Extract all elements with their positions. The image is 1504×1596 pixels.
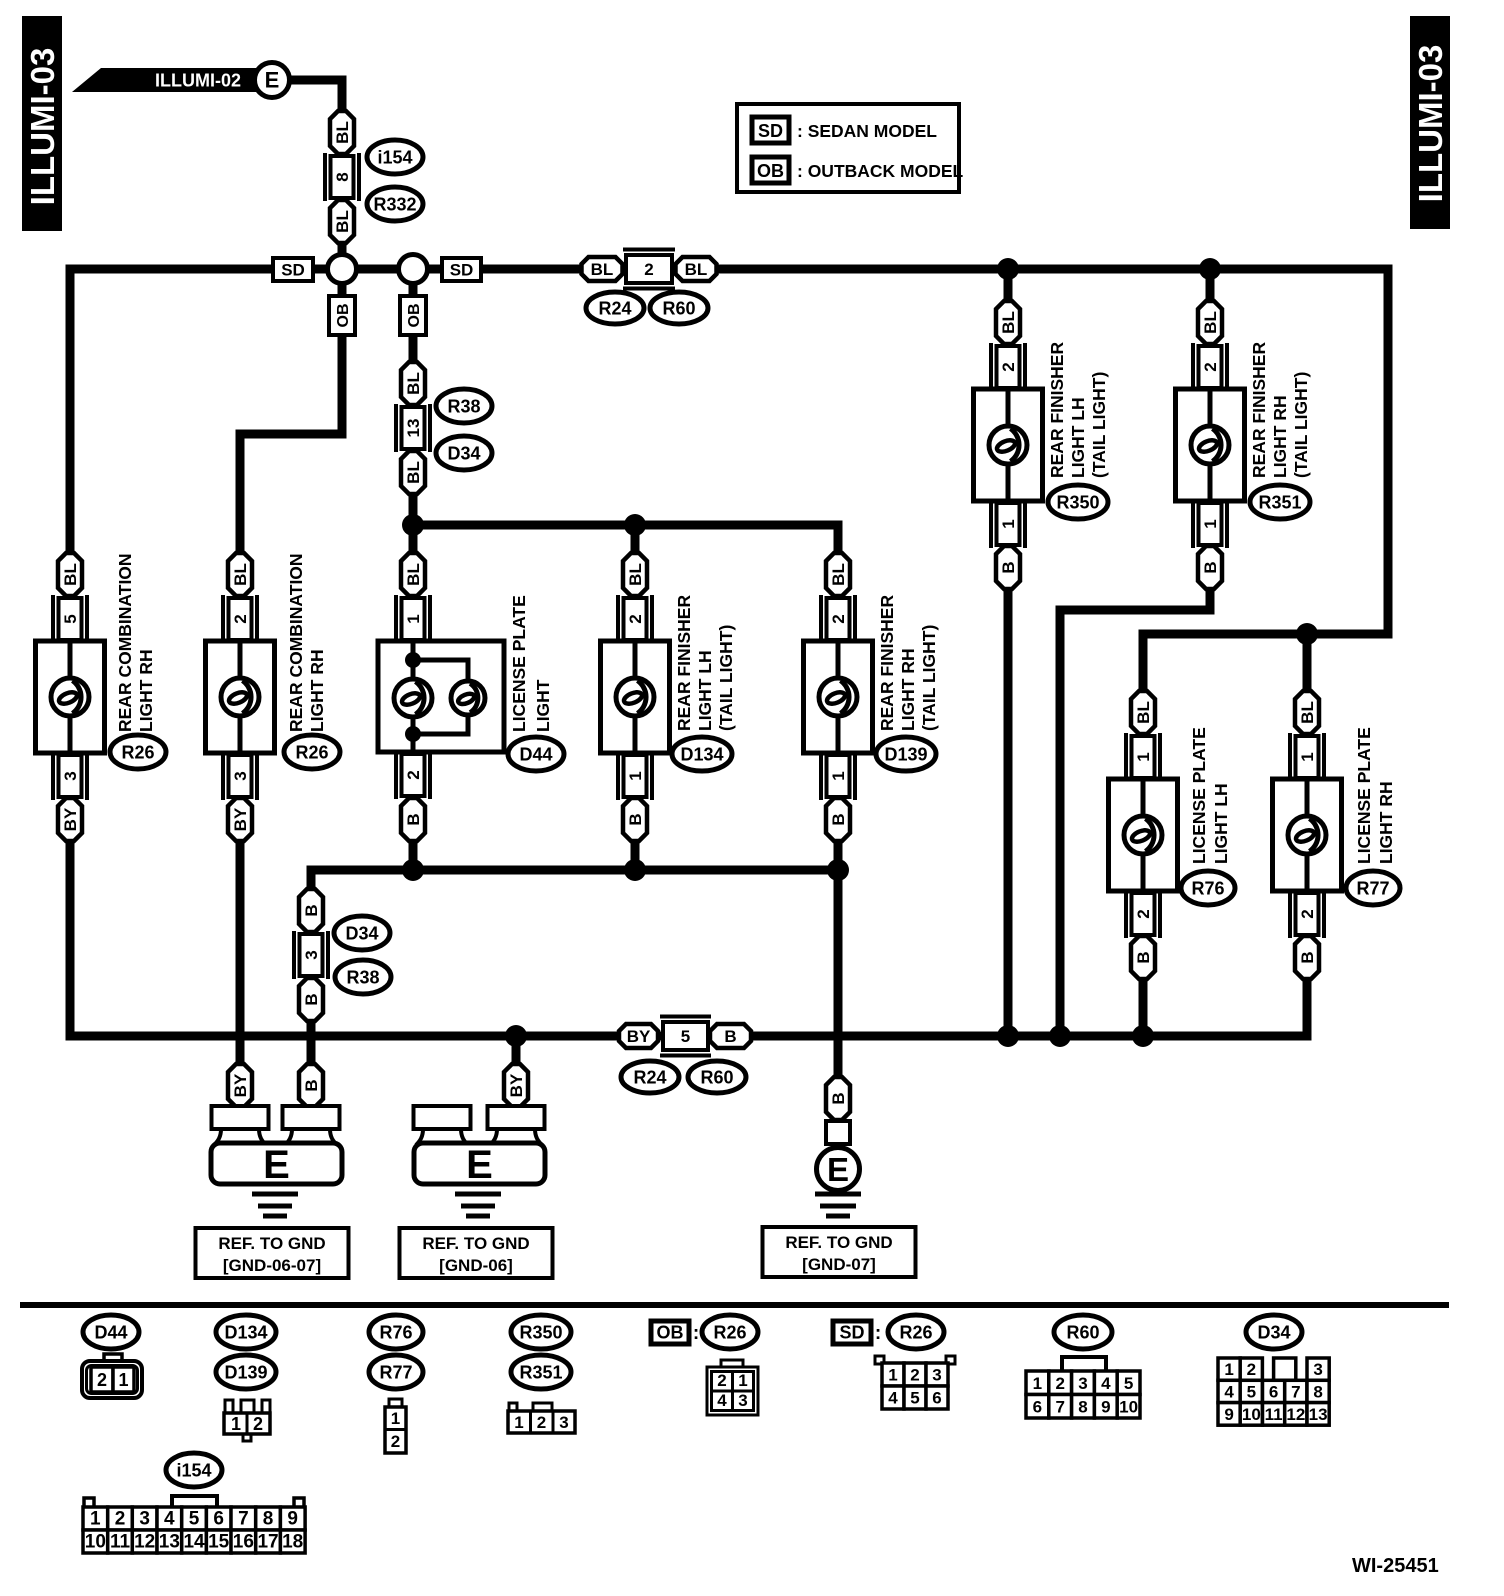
svg-text:E: E: [466, 1143, 493, 1187]
tag SD (pinout): [833, 1321, 871, 1344]
svg-text:SD: SD: [281, 261, 305, 280]
svg-text:17: 17: [257, 1532, 278, 1553]
svg-text:1: 1: [626, 771, 645, 780]
svg-text:2: 2: [537, 1413, 546, 1432]
svg-text:6: 6: [1269, 1382, 1278, 1401]
wire label BY (to GND-06-07 left): [228, 1064, 252, 1107]
oval R77: [1346, 871, 1400, 905]
junction top bus / R350: [997, 258, 1019, 280]
pinout oval D139: [216, 1355, 276, 1389]
node SD/OB junction right: [399, 255, 428, 284]
oval R24 (top): [586, 292, 644, 324]
svg-text:9: 9: [287, 1509, 298, 1530]
svg-text:LIGHT RH: LIGHT RH: [898, 648, 918, 731]
svg-text:1: 1: [118, 1370, 128, 1390]
junction B bus / D44: [402, 859, 424, 881]
oval R26 (mid lamp): [284, 735, 340, 769]
svg-text:LIGHT RH: LIGHT RH: [1376, 781, 1396, 864]
svg-text:5: 5: [61, 614, 80, 623]
left banner ILLUMI-03: [22, 16, 62, 231]
svg-text:1: 1: [1298, 752, 1317, 761]
svg-text:OB: OB: [757, 161, 784, 181]
svg-text:4: 4: [717, 1391, 727, 1410]
svg-text:B: B: [829, 813, 848, 825]
pinout oval D44: [83, 1315, 139, 1349]
pinout connector D34: [1218, 1358, 1329, 1425]
svg-text:R26: R26: [121, 743, 154, 763]
oval R38 (mid): [335, 960, 391, 994]
svg-text:15: 15: [208, 1532, 230, 1553]
pinout connector R350/R351: [508, 1403, 575, 1433]
svg-text:REAR FINISHER: REAR FINISHER: [877, 595, 897, 731]
svg-text:R26: R26: [899, 1323, 932, 1343]
ground GND-06: [414, 1106, 546, 1216]
svg-text:B: B: [1298, 951, 1317, 963]
svg-text:LIGHT LH: LIGHT LH: [1068, 397, 1088, 478]
svg-text:3: 3: [1078, 1374, 1087, 1393]
ground GND-06-07: [211, 1106, 342, 1216]
wire rear combination RH (mid) BY to ground GND-06-07: [236, 841, 245, 1064]
junction ground bus / R351: [1049, 1025, 1071, 1047]
svg-text:(TAIL LIGHT): (TAIL LIGHT): [716, 625, 736, 731]
svg-text:LICENSE PLATE: LICENSE PLATE: [509, 595, 529, 732]
wire D134 pin 1 to B bus: [631, 841, 640, 870]
wire ground bus (bottom): [70, 841, 1307, 1036]
oval D34 (upper): [436, 436, 492, 470]
svg-text:1: 1: [231, 1414, 241, 1434]
pinout oval R60: [1054, 1315, 1112, 1349]
svg-text:R26: R26: [713, 1323, 746, 1343]
svg-text:R351: R351: [519, 1363, 562, 1383]
svg-text:B: B: [999, 561, 1018, 573]
svg-text:B: B: [1201, 561, 1220, 573]
svg-text:12: 12: [134, 1532, 155, 1553]
oval R350: [1048, 485, 1108, 519]
pinout connector R76/R77: [385, 1399, 406, 1453]
svg-text:3: 3: [231, 771, 250, 780]
wire label B (below pin 3): [299, 978, 323, 1021]
oval D34 (mid): [334, 916, 390, 950]
pinout oval i154: [166, 1453, 222, 1487]
svg-text:4: 4: [1224, 1382, 1234, 1401]
svg-text:OB: OB: [335, 304, 352, 328]
svg-text:D44: D44: [519, 745, 552, 765]
lamp R351 rear finisher light RH (tail light): [1176, 301, 1312, 589]
junction B bus / D139 ground wire: [827, 859, 849, 881]
inline connector pin 2 (R24/R60): [623, 250, 675, 289]
wire label BL (right of pin 2): [676, 257, 717, 281]
wire R350 B to ground bus: [1004, 589, 1013, 1036]
oval R332: [367, 187, 423, 221]
svg-text:2: 2: [1247, 1360, 1256, 1379]
junction feed node at D34 connector: [402, 514, 424, 536]
oval R60 (bottom): [688, 1061, 746, 1093]
oval D139: [876, 737, 936, 771]
svg-text:BL: BL: [626, 563, 645, 586]
oval D134: [672, 737, 732, 771]
oval R351: [1250, 485, 1310, 519]
svg-text:B: B: [404, 813, 423, 825]
svg-text:B: B: [302, 1079, 321, 1091]
oval D44: [508, 737, 564, 771]
drawing number WI-25451: [1352, 1555, 1439, 1577]
svg-text:2: 2: [253, 1414, 263, 1434]
svg-text:BL: BL: [333, 121, 352, 144]
svg-text:1: 1: [888, 1366, 897, 1385]
svg-text:BY: BY: [231, 807, 250, 831]
svg-text:11: 11: [110, 1532, 131, 1553]
wire OB branch through D34/R38 connector: [409, 269, 418, 362]
svg-text:2: 2: [644, 260, 653, 279]
svg-text:LIGHT RH: LIGHT RH: [307, 649, 327, 732]
wire label BY (left of pin 5): [619, 1024, 658, 1048]
svg-text:2: 2: [391, 1432, 400, 1451]
pinout connector R26 sedan: [875, 1356, 955, 1409]
svg-text:2: 2: [1134, 909, 1153, 918]
svg-text:14: 14: [183, 1532, 205, 1553]
svg-text:BL: BL: [999, 311, 1018, 334]
svg-text:D139: D139: [884, 745, 927, 765]
svg-text:1: 1: [1033, 1374, 1042, 1393]
wire feed to license plate light RH R77: [1303, 634, 1312, 691]
tag SD (right): [442, 258, 481, 281]
svg-text:1: 1: [738, 1371, 747, 1390]
wire R351 B to ground bus: [1060, 589, 1210, 1036]
svg-text:6: 6: [213, 1509, 224, 1530]
svg-text:BL: BL: [829, 563, 848, 586]
inline connector pin 5 (R24/R60): [660, 1017, 711, 1056]
svg-text:2: 2: [1055, 1374, 1064, 1393]
svg-text:13: 13: [404, 419, 423, 438]
pinout connector R60: [1026, 1357, 1140, 1418]
ground GND-07: [815, 1121, 861, 1216]
svg-text:D34: D34: [345, 924, 378, 944]
svg-text:2: 2: [717, 1371, 726, 1390]
junction right feed / R77: [1296, 623, 1318, 645]
pinout connector D44: [82, 1354, 142, 1398]
wire label BL (left of pin 2): [582, 257, 623, 281]
svg-text:(TAIL LIGHT): (TAIL LIGHT): [1089, 372, 1109, 478]
svg-text:13: 13: [1309, 1405, 1328, 1424]
pinout oval R351: [511, 1355, 571, 1389]
inline connector pin 8 (i154/R332): [325, 153, 359, 201]
svg-text:9: 9: [1101, 1397, 1110, 1416]
svg-text:D44: D44: [94, 1323, 127, 1343]
svg-text:1: 1: [514, 1413, 523, 1432]
svg-text:R60: R60: [1066, 1323, 1099, 1343]
svg-text:2: 2: [829, 614, 848, 623]
svg-text:R351: R351: [1258, 493, 1301, 513]
pinout oval D134: [216, 1315, 276, 1349]
svg-text:BL: BL: [231, 563, 250, 586]
svg-text:3: 3: [1313, 1360, 1322, 1379]
inline connector pin 3 (D34/R38): [294, 931, 328, 979]
svg-text:BL: BL: [1201, 311, 1220, 334]
svg-text:5: 5: [1124, 1374, 1133, 1393]
svg-text:16: 16: [233, 1532, 254, 1553]
svg-text:8: 8: [333, 172, 352, 181]
legend box: [737, 104, 964, 192]
pinout oval R77: [369, 1355, 423, 1389]
svg-text:E: E: [263, 1143, 290, 1187]
svg-text:B: B: [724, 1027, 736, 1046]
svg-text:OB: OB: [406, 304, 423, 328]
pinout oval D34: [1246, 1315, 1302, 1349]
svg-text:BL: BL: [1298, 701, 1317, 724]
svg-text:1: 1: [1134, 752, 1153, 761]
svg-text:REF. TO GND: REF. TO GND: [218, 1234, 325, 1253]
svg-text:1: 1: [1224, 1360, 1233, 1379]
svg-text:3: 3: [932, 1366, 941, 1385]
svg-text:REAR FINISHER: REAR FINISHER: [1047, 342, 1067, 478]
svg-text:R24: R24: [598, 299, 631, 319]
lamp R350 rear finisher light LH (tail light): [974, 301, 1110, 589]
svg-text:R60: R60: [700, 1068, 733, 1088]
svg-text:5: 5: [910, 1389, 919, 1408]
svg-text:BY: BY: [627, 1027, 651, 1046]
wire label BL (above i154 pin 8): [330, 111, 354, 154]
svg-text:BY: BY: [231, 1073, 250, 1097]
svg-text:BL: BL: [404, 461, 423, 484]
node SD/OB junction left: [328, 255, 357, 284]
svg-text:2: 2: [1201, 362, 1220, 371]
tag OB (right): [400, 296, 426, 335]
svg-text:7: 7: [1055, 1397, 1064, 1416]
svg-text:R76: R76: [1191, 879, 1224, 899]
wire R76 B to ground bus: [1139, 979, 1148, 1036]
svg-text:D139: D139: [224, 1363, 267, 1383]
svg-text:D134: D134: [680, 745, 723, 765]
svg-text:BL: BL: [404, 563, 423, 586]
svg-text:: OUTBACK MODEL: : OUTBACK MODEL: [797, 161, 964, 181]
lamp D134 rear finisher light LH (tail light): [601, 553, 737, 841]
wire label B (right of pin 5): [710, 1024, 751, 1048]
svg-text:2: 2: [97, 1370, 107, 1390]
svg-text:[GND-07]: [GND-07]: [802, 1255, 876, 1274]
wire label BL (above pin 13): [401, 362, 425, 405]
svg-text:R38: R38: [447, 397, 480, 417]
oval R60 (top): [650, 292, 708, 324]
tag SD (left): [273, 258, 313, 281]
svg-text:B: B: [626, 813, 645, 825]
svg-text:12: 12: [1286, 1405, 1305, 1424]
svg-text:LIGHT LH: LIGHT LH: [1211, 783, 1231, 864]
lamp R26 rear combination light RH (left): [36, 553, 157, 841]
svg-text:3: 3: [559, 1413, 568, 1432]
svg-text:REAR FINISHER: REAR FINISHER: [674, 595, 694, 731]
svg-text:BY: BY: [61, 807, 80, 831]
svg-text:i154: i154: [176, 1461, 211, 1481]
svg-text:SD: SD: [450, 261, 474, 280]
svg-text:B: B: [302, 904, 321, 916]
svg-text:1: 1: [829, 771, 848, 780]
wire ground bus branch to GND-06: [512, 1036, 521, 1064]
svg-text:7: 7: [1291, 1382, 1300, 1401]
pinout oval R26 (OB): [702, 1315, 758, 1349]
svg-text:B: B: [302, 993, 321, 1005]
svg-text:3: 3: [139, 1509, 150, 1530]
svg-text:5: 5: [681, 1027, 690, 1046]
svg-text:11: 11: [1265, 1405, 1283, 1424]
lamp D139 rear finisher light RH (tail light): [804, 553, 940, 841]
svg-text:ILLUMI-03: ILLUMI-03: [24, 48, 61, 206]
wire main illumination bus (top): [70, 269, 1388, 691]
svg-text:i154: i154: [377, 148, 412, 168]
junction ground bus / R350: [997, 1025, 1019, 1047]
svg-text:1: 1: [404, 614, 423, 623]
svg-text:D34: D34: [1257, 1323, 1290, 1343]
lamp D44 license plate light: [378, 553, 553, 841]
svg-text:REAR COMBINATION: REAR COMBINATION: [286, 553, 306, 732]
oval R38 (upper): [436, 389, 492, 423]
svg-text:B: B: [829, 1092, 848, 1104]
svg-text:2: 2: [404, 770, 423, 779]
separator line: [20, 1302, 1449, 1308]
svg-text:R76: R76: [379, 1323, 412, 1343]
svg-text:R77: R77: [379, 1363, 412, 1383]
svg-text:1: 1: [90, 1509, 101, 1530]
svg-text:: SEDAN MODEL: : SEDAN MODEL: [797, 121, 937, 141]
svg-text:R350: R350: [519, 1323, 562, 1343]
svg-text:R350: R350: [1056, 493, 1099, 513]
svg-text:LIGHT LH: LIGHT LH: [695, 650, 715, 731]
oval i154: [367, 140, 423, 174]
svg-text:4: 4: [164, 1509, 175, 1530]
colon (OB:R26): [693, 1323, 699, 1344]
svg-text:9: 9: [1224, 1405, 1233, 1424]
inline connector pin 13 (R38/D34): [396, 404, 430, 452]
svg-text:E: E: [265, 68, 280, 93]
pinout oval R350: [511, 1315, 571, 1349]
svg-text:B: B: [1134, 951, 1153, 963]
svg-text:REF. TO GND: REF. TO GND: [785, 1233, 892, 1252]
oval R24 (bottom): [621, 1061, 679, 1093]
svg-text:D134: D134: [224, 1323, 267, 1343]
wire label BY (to GND-06): [504, 1064, 528, 1107]
svg-text:6: 6: [1033, 1397, 1042, 1416]
svg-text:2: 2: [115, 1509, 126, 1530]
svg-text:10: 10: [1119, 1397, 1138, 1416]
lamp R77 license plate light RH: [1273, 691, 1397, 979]
tag OB (left): [329, 296, 355, 335]
svg-text:1: 1: [999, 519, 1018, 528]
wire label BL (below pin 13): [401, 451, 425, 494]
pinout oval R76: [369, 1315, 423, 1349]
pinout connector D134/D139: [224, 1400, 270, 1441]
svg-text:8: 8: [1313, 1382, 1322, 1401]
svg-text:[GND-06-07]: [GND-06-07]: [223, 1256, 321, 1275]
svg-text:LIGHT RH: LIGHT RH: [1270, 395, 1290, 478]
svg-text:BL: BL: [685, 260, 708, 279]
tag OB (pinout): [651, 1321, 689, 1344]
svg-text:REAR FINISHER: REAR FINISHER: [1249, 342, 1269, 478]
svg-text:REAR COMBINATION: REAR COMBINATION: [115, 553, 135, 732]
svg-text:10: 10: [1242, 1405, 1261, 1424]
wire label BL (below i154 pin 8): [330, 200, 354, 243]
svg-text:(TAIL LIGHT): (TAIL LIGHT): [919, 625, 939, 731]
svg-text:7: 7: [238, 1509, 249, 1530]
svg-text:R60: R60: [662, 299, 695, 319]
arrow banner ILLUMI-02: [72, 68, 259, 92]
wire label B (above pin 3): [299, 889, 323, 932]
svg-text:LIGHT: LIGHT: [533, 679, 553, 732]
svg-text:8: 8: [1078, 1397, 1087, 1416]
svg-text:18: 18: [282, 1532, 303, 1553]
svg-text:[GND-06]: [GND-06]: [439, 1256, 513, 1275]
junction B bus / D134: [624, 859, 646, 881]
wire ILLUMI-02 feed from connector E: [289, 80, 342, 111]
svg-text:WI-25451: WI-25451: [1352, 1555, 1439, 1577]
svg-text:3: 3: [738, 1391, 747, 1410]
svg-text:13: 13: [159, 1532, 180, 1553]
svg-text:2: 2: [231, 614, 250, 623]
svg-text:BY: BY: [507, 1073, 526, 1097]
right banner ILLUMI-03: [1410, 16, 1450, 229]
pinout oval R26 (SD): [888, 1315, 944, 1349]
wire label B (to GND-06-07 right): [299, 1064, 323, 1107]
junction ground bus / GND-06 branch: [505, 1025, 527, 1047]
svg-text::: :: [875, 1323, 881, 1344]
svg-text:BL: BL: [61, 563, 80, 586]
label REF. TO GND [GND-06-07]: [196, 1228, 349, 1278]
wire pin3 stack to ground GND-06-07: [307, 1021, 316, 1064]
oval R26 (left lamp): [110, 735, 166, 769]
connector E (to ILLUMI-02): [255, 63, 290, 98]
svg-text:5: 5: [189, 1509, 200, 1530]
svg-text:BL: BL: [1134, 701, 1153, 724]
svg-text:1: 1: [391, 1409, 400, 1428]
svg-text:ILLUMI-02: ILLUMI-02: [155, 71, 241, 91]
junction top bus / R351: [1199, 258, 1221, 280]
pinout connector i154: [83, 1496, 305, 1553]
svg-text:3: 3: [61, 771, 80, 780]
pinout connector R26 outback: [707, 1360, 758, 1415]
svg-text:E: E: [827, 1151, 849, 1188]
label REF. TO GND [GND-07]: [763, 1227, 916, 1277]
wire BL stack to feed node: [409, 494, 418, 525]
svg-text:2: 2: [910, 1366, 919, 1385]
svg-text:R332: R332: [373, 195, 416, 215]
svg-text:10: 10: [85, 1532, 106, 1553]
wire D139 pin 1 to ground GND-07: [834, 841, 843, 1077]
wire bus drop to R351 tail light: [1206, 269, 1215, 301]
svg-text:LICENSE PLATE: LICENSE PLATE: [1354, 727, 1374, 864]
svg-text:R77: R77: [1356, 879, 1389, 899]
wire label B (to GND-07): [826, 1077, 850, 1120]
svg-text:REF. TO GND: REF. TO GND: [422, 1234, 529, 1253]
svg-text:BL: BL: [591, 260, 614, 279]
svg-text:R38: R38: [346, 968, 379, 988]
wire D44 pin 2 to B bus: [409, 841, 418, 870]
lamp R76 license plate light LH: [1109, 691, 1232, 979]
svg-text:(TAIL LIGHT): (TAIL LIGHT): [1291, 372, 1311, 478]
svg-text:3: 3: [302, 950, 321, 959]
svg-text:2: 2: [626, 614, 645, 623]
svg-text:R24: R24: [633, 1068, 666, 1088]
svg-text:ILLUMI-03: ILLUMI-03: [1412, 45, 1449, 203]
wire OB branch to rear combination light RH (R26) pin 2: [240, 269, 342, 553]
svg-text:OB: OB: [657, 1323, 684, 1343]
svg-text:LIGHT RH: LIGHT RH: [136, 649, 156, 732]
svg-text::: :: [693, 1323, 699, 1344]
svg-text:R26: R26: [295, 743, 328, 763]
svg-text:2: 2: [1298, 909, 1317, 918]
svg-text:4: 4: [1101, 1374, 1111, 1393]
svg-text:6: 6: [932, 1389, 941, 1408]
wire license/finisher feed line: [413, 525, 838, 553]
svg-text:4: 4: [888, 1389, 898, 1408]
svg-text:8: 8: [263, 1509, 274, 1530]
